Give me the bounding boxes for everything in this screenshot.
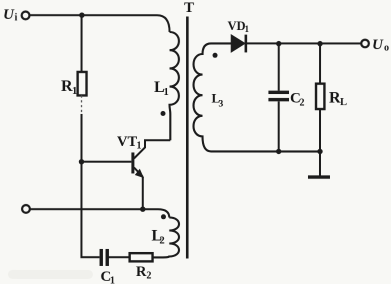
svg-text:1: 1	[164, 87, 169, 98]
svg-text:2: 2	[300, 98, 305, 109]
svg-text:T: T	[184, 0, 194, 16]
wire bottom input row	[30, 209, 169, 217]
node base junction	[79, 159, 84, 164]
transformer core T	[186, 16, 189, 258]
wire bottom left corner from rail to C1	[81, 256, 99, 257]
svg-text:o: o	[384, 43, 389, 54]
node L2 polarity dot	[161, 214, 166, 219]
label C1	[100, 269, 115, 284]
svg-text:VD: VD	[228, 19, 246, 33]
node L3 polarity dot	[213, 53, 218, 58]
node top junction on rail	[79, 12, 84, 17]
inductor L2 winding	[153, 217, 179, 257]
wire emitter down	[142, 177, 144, 209]
wire top from U_i terminal to L1	[30, 15, 170, 32]
terminal input top (U_i)	[22, 12, 30, 20]
wire C1 to R2	[109, 256, 130, 258]
svg-text:1: 1	[136, 140, 141, 151]
wire left rail upper (junction to R1)	[81, 15, 83, 72]
capacitor C2 plate top	[268, 91, 289, 94]
ground	[308, 175, 330, 178]
node bottom C2 tap	[276, 149, 281, 154]
wire diode to output terminal	[247, 42, 361, 44]
wire C2 lower	[278, 101, 280, 151]
label U_o	[372, 37, 389, 54]
label VD1	[228, 19, 250, 34]
transistor VT1 base bar	[131, 152, 134, 173]
wire RL lower	[319, 109, 321, 151]
svg-text:VT: VT	[117, 134, 137, 150]
wire C2 upper	[278, 44, 280, 91]
transistor VT1 emitter arrow	[135, 169, 144, 178]
svg-text:2: 2	[146, 270, 151, 281]
terminal input bottom	[22, 205, 30, 213]
node top RL tap	[317, 41, 322, 46]
capacitor C1 plate left	[100, 249, 103, 266]
transistor VT1 emitter lead	[134, 167, 143, 176]
wire ground stem	[319, 151, 321, 175]
svg-text:2: 2	[159, 235, 164, 246]
transistor VT1 collector lead	[134, 140, 170, 158]
svg-text:U: U	[3, 7, 15, 23]
label R1	[61, 78, 77, 97]
label C2	[290, 91, 305, 109]
resistor R2	[130, 253, 153, 261]
svg-text:i: i	[15, 12, 18, 23]
svg-text:R: R	[136, 264, 147, 280]
node L1 polarity dot	[161, 111, 166, 116]
resistor R1	[78, 72, 87, 96]
label L1	[154, 79, 169, 98]
label R2	[136, 264, 152, 282]
svg-text:L: L	[340, 97, 347, 108]
resistor RL	[316, 84, 324, 109]
svg-text:3: 3	[219, 100, 224, 110]
wire base	[81, 161, 131, 163]
wire left rail (to base junction and down)	[80, 114, 82, 257]
svg-text:1: 1	[110, 275, 115, 284]
diode VD1 cathode bar	[245, 35, 248, 53]
label RL	[329, 90, 347, 109]
wire left rail faint segment below R1	[81, 95, 83, 114]
terminal output (U_o)	[361, 40, 369, 48]
diode VD1 triangle	[232, 35, 245, 51]
capacitor C1 plate right	[106, 249, 109, 266]
label L2	[151, 227, 164, 246]
label L3	[212, 91, 224, 110]
svg-text:U: U	[372, 37, 384, 53]
node top C2 tap	[276, 41, 281, 46]
wire RL upper	[319, 44, 321, 84]
inductor L1 winding	[170, 32, 179, 140]
capacitor C2 plate bottom	[268, 98, 289, 101]
label VT1	[117, 134, 142, 152]
node bottom RL tap	[317, 149, 322, 154]
svg-text:1: 1	[72, 86, 77, 97]
label U_i	[3, 7, 18, 24]
inductor L3 winding	[193, 43, 320, 151]
svg-text:1: 1	[245, 24, 250, 34]
node emitter junction	[140, 206, 145, 211]
